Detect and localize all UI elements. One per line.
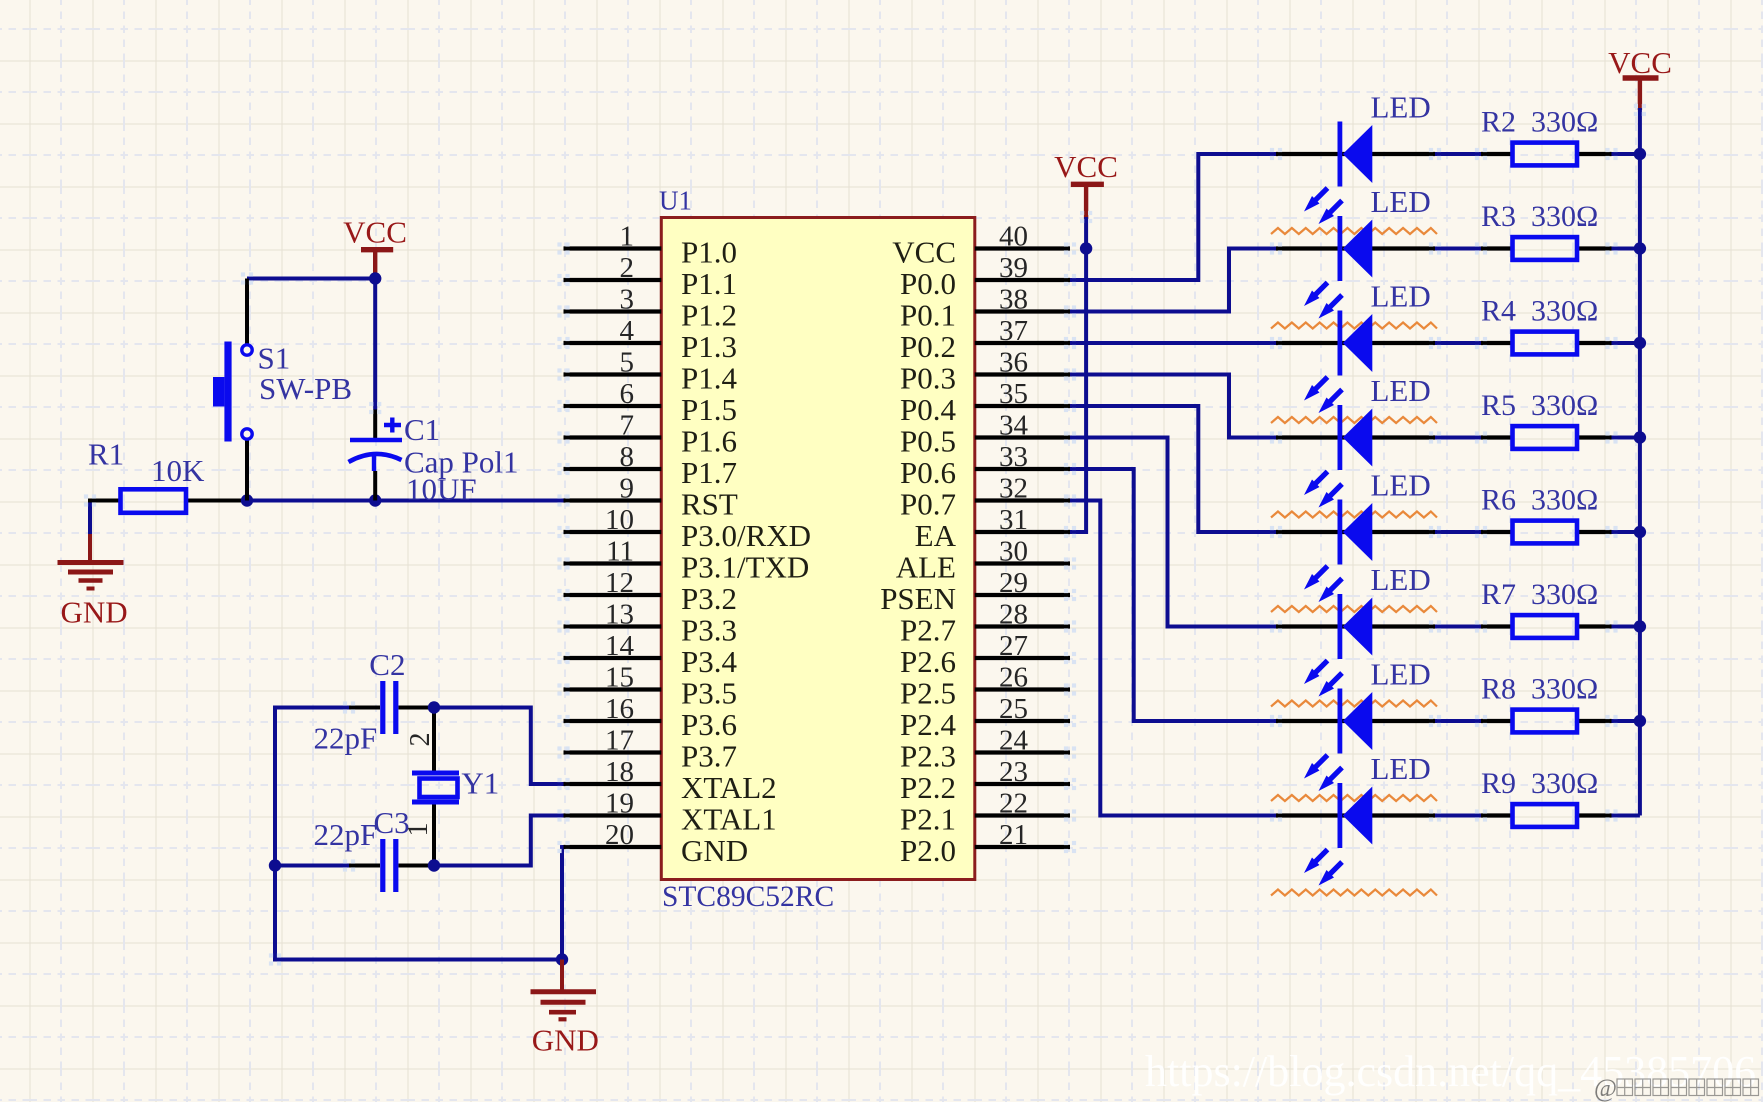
svg-text:4: 4 <box>620 315 635 347</box>
error squiggle under LED D3 <box>1271 417 1437 423</box>
pin endpoint markers <box>84 104 1646 966</box>
wire R3 to VCC rail <box>1612 247 1640 251</box>
resistor R4 330ohm <box>1481 295 1612 355</box>
svg-text:2: 2 <box>405 733 436 747</box>
svg-text:P3.7: P3.7 <box>681 739 737 774</box>
junction rail-GND node <box>556 953 568 965</box>
wire P0.6 net <box>1070 469 1276 721</box>
U1 pin 40 (VCC) <box>892 221 1070 270</box>
svg-text:26: 26 <box>999 662 1028 694</box>
junction C3-Y1 node <box>428 859 440 871</box>
svg-text:P1.2: P1.2 <box>681 298 737 333</box>
wire GND pin20 net <box>562 847 564 960</box>
svg-text:10: 10 <box>605 504 634 536</box>
wire RST net horizontal <box>247 499 564 503</box>
svg-text:P3.3: P3.3 <box>681 613 737 648</box>
svg-text:P2.3: P2.3 <box>900 739 956 774</box>
U1 pin 37 (P0.2) <box>900 315 1070 364</box>
svg-text:VCC: VCC <box>1608 45 1672 80</box>
svg-text:P2.7: P2.7 <box>900 613 956 648</box>
wire LED D2 to R3 <box>1435 247 1482 251</box>
U1 pin 22 (P2.1) <box>900 788 1070 837</box>
wire P0.4 net <box>1070 406 1276 532</box>
svg-text:LED: LED <box>1371 373 1431 408</box>
svg-text:6: 6 <box>620 378 635 410</box>
wire P0.2 net <box>1070 341 1276 345</box>
wire LED D5 to R6 <box>1435 530 1482 534</box>
wire LED D4 to R5 <box>1435 436 1482 440</box>
svg-text:LED: LED <box>1371 562 1431 597</box>
U1 pin 33 (P0.6) <box>900 441 1070 490</box>
U1 pin 38 (P0.1) <box>900 284 1070 333</box>
svg-text:C1: C1 <box>404 412 440 447</box>
svg-text:VCC: VCC <box>1054 149 1118 184</box>
resistor R7 330ohm <box>1481 578 1612 638</box>
svg-text:1: 1 <box>620 221 635 253</box>
svg-text:@: @ <box>1594 1075 1617 1102</box>
wire R6 to VCC rail <box>1612 530 1640 534</box>
wire XTAL2 net <box>434 708 564 785</box>
svg-text:21: 21 <box>999 819 1028 851</box>
junction R6-VCC rail <box>1634 526 1646 538</box>
junction C2-Y1 node <box>428 701 440 713</box>
svg-text:XTAL1: XTAL1 <box>681 802 777 837</box>
LED D8 <box>1276 751 1435 886</box>
junction R5-VCC rail <box>1634 431 1646 443</box>
svg-text:R9 330Ω: R9 330Ω <box>1481 767 1598 800</box>
U1 pin 13 (P3.3) <box>564 599 738 648</box>
svg-text:P0.7: P0.7 <box>900 487 956 522</box>
svg-text:LED: LED <box>1371 468 1431 503</box>
svg-text:8: 8 <box>620 441 635 473</box>
svg-text:7: 7 <box>620 410 635 442</box>
resistor R1 <box>88 437 249 513</box>
svg-text:P2.1: P2.1 <box>900 802 956 837</box>
svg-text:P3.1/TXD: P3.1/TXD <box>681 550 809 585</box>
U1 pin 9 (RST) <box>564 473 738 522</box>
svg-text:R7 330Ω: R7 330Ω <box>1481 578 1598 611</box>
U1 pin 17 (P3.7) <box>564 725 738 774</box>
U1 pin 16 (P3.6) <box>564 693 738 742</box>
svg-text:P0.5: P0.5 <box>900 424 956 459</box>
svg-text:SW-PB: SW-PB <box>259 371 352 406</box>
U1 pin 20 (GND) <box>564 819 749 868</box>
svg-text:P2.4: P2.4 <box>900 707 956 742</box>
svg-text:R3 330Ω: R3 330Ω <box>1481 200 1598 233</box>
U1 pin 18 (XTAL2) <box>564 756 777 805</box>
svg-text:GND: GND <box>532 1023 599 1058</box>
svg-text:XTAL2: XTAL2 <box>681 770 777 805</box>
svg-text:22: 22 <box>999 788 1028 820</box>
op-amp substitute: MCU U1 body <box>659 186 975 914</box>
U1 pin 1 (P1.0) <box>564 221 738 270</box>
svg-text:P1.1: P1.1 <box>681 266 737 301</box>
resistor R9 330ohm <box>1481 767 1612 827</box>
U1 pin 29 (PSEN) <box>880 567 1070 616</box>
svg-text:P3.6: P3.6 <box>681 707 737 742</box>
svg-text:https://blog.csdn.net/qq_45385: https://blog.csdn.net/qq_45385706 <box>1145 1047 1756 1096</box>
svg-text:5: 5 <box>620 347 635 379</box>
wire R5 to VCC rail <box>1612 436 1640 440</box>
svg-text:LED: LED <box>1371 751 1431 786</box>
U1 pin 23 (P2.2) <box>900 756 1070 805</box>
svg-text:15: 15 <box>605 662 634 694</box>
U1 pin 4 (P1.3) <box>564 315 738 364</box>
resistor R2 330ohm <box>1481 106 1612 166</box>
svg-text:39: 39 <box>999 252 1028 284</box>
U1 pin 6 (P1.5) <box>564 378 738 427</box>
U1 pin 24 (P2.3) <box>900 725 1070 774</box>
svg-text:P1.4: P1.4 <box>681 361 737 396</box>
junction R2-VCC rail <box>1634 148 1646 160</box>
wire R4 to VCC rail <box>1612 341 1640 345</box>
wire XTAL1 net <box>434 816 564 866</box>
LED D1 <box>1276 90 1435 225</box>
svg-text:LED: LED <box>1371 90 1431 125</box>
U1 pin 28 (P2.7) <box>900 599 1070 648</box>
svg-text:P1.6: P1.6 <box>681 424 737 459</box>
wire bottom rail to GND <box>273 958 562 962</box>
svg-text:LED: LED <box>1371 279 1431 314</box>
svg-text:P3.0/RXD: P3.0/RXD <box>681 518 811 553</box>
error squiggle under LED D1 <box>1271 228 1437 234</box>
svg-text:P1.3: P1.3 <box>681 329 737 364</box>
wire R8 to VCC rail <box>1612 719 1640 723</box>
U1 pin 30 (ALE) <box>896 536 1070 585</box>
svg-text:C2: C2 <box>369 647 405 682</box>
resistor R6 330ohm <box>1481 484 1612 544</box>
svg-text:25: 25 <box>999 693 1028 725</box>
LED D3 <box>1276 279 1435 414</box>
error squiggle under LED D2 <box>1271 323 1437 329</box>
svg-text:33: 33 <box>999 441 1028 473</box>
svg-text:P0.3: P0.3 <box>900 361 956 396</box>
U1 pin 12 (P3.2) <box>564 567 738 616</box>
svg-text:1: 1 <box>403 823 434 837</box>
crystal Y1 <box>403 706 499 868</box>
U1 pin 34 (P0.5) <box>900 410 1070 459</box>
svg-text:P2.5: P2.5 <box>900 676 956 711</box>
svg-text:VCC: VCC <box>343 215 407 250</box>
wire P0.3 net <box>1070 375 1276 438</box>
svg-text:38: 38 <box>999 284 1028 316</box>
U1 pin 7 (P1.6) <box>564 410 738 459</box>
power port VCC (right) <box>1608 45 1672 110</box>
svg-text:30: 30 <box>999 536 1028 568</box>
svg-text:P0.2: P0.2 <box>900 329 956 364</box>
error squiggle under LED D6 <box>1271 701 1437 707</box>
U1 pin 32 (P0.7) <box>900 473 1070 522</box>
svg-text:STC89C52RC: STC89C52RC <box>662 881 834 913</box>
LED D5 <box>1276 468 1435 603</box>
error squiggle under LED D8 <box>1271 890 1437 896</box>
U1 pin 19 (XTAL1) <box>564 788 777 837</box>
U1 pin 39 (P0.0) <box>900 252 1070 301</box>
svg-text:U1: U1 <box>659 186 692 216</box>
svg-text:P1.0: P1.0 <box>681 235 737 270</box>
U1 pin 26 (P2.5) <box>900 662 1070 711</box>
junction R3-VCC rail <box>1634 242 1646 254</box>
U1 pin 11 (P3.1/TXD) <box>564 536 810 585</box>
svg-text:20: 20 <box>605 819 634 851</box>
switch S1 SW-PB <box>213 279 352 501</box>
U1 pin 25 (P2.4) <box>900 693 1070 742</box>
svg-text:EA: EA <box>915 518 957 553</box>
U1 pin 36 (P0.3) <box>900 347 1070 396</box>
LED D6 <box>1276 562 1435 697</box>
svg-text:29: 29 <box>999 567 1028 599</box>
U1 pin 31 (EA) <box>915 504 1070 553</box>
U1 pin 5 (P1.4) <box>564 347 738 396</box>
wire left rail vertical <box>273 706 277 960</box>
ground GND (bottom) <box>531 960 599 1058</box>
svg-text:17: 17 <box>605 725 634 757</box>
svg-text:LED: LED <box>1371 184 1431 219</box>
wire R9 to VCC rail <box>1612 814 1640 818</box>
junction VCC-S1-C1 node <box>369 272 381 284</box>
svg-text:P3.4: P3.4 <box>681 644 737 679</box>
svg-text:24: 24 <box>999 725 1029 757</box>
capacitor C2 <box>314 647 435 756</box>
svg-text:R1: R1 <box>88 437 124 472</box>
wire S1 top to VCC node <box>247 277 375 281</box>
wire R1 left to GND <box>88 499 92 537</box>
svg-text:16: 16 <box>605 693 634 725</box>
svg-text:32: 32 <box>999 473 1028 505</box>
U1 pin 21 (P2.0) <box>900 819 1070 868</box>
resistor R3 330ohm <box>1481 200 1612 260</box>
svg-text:34: 34 <box>999 410 1029 442</box>
U1 pin 27 (P2.6) <box>900 630 1070 679</box>
wire LED D6 to R7 <box>1435 625 1482 629</box>
U1 pin 8 (P1.7) <box>564 441 738 490</box>
svg-text:P0.0: P0.0 <box>900 266 956 301</box>
svg-text:35: 35 <box>999 378 1028 410</box>
watermark community badge <box>1594 1075 1759 1102</box>
svg-text:R5 330Ω: R5 330Ω <box>1481 389 1598 422</box>
U1 pin 3 (P1.2) <box>564 284 738 333</box>
error squiggle under LED D7 <box>1271 795 1437 801</box>
resistor R5 330ohm <box>1481 389 1612 449</box>
svg-text:2: 2 <box>620 252 635 284</box>
wire P0.0 net <box>1070 154 1276 280</box>
junction VCC-pin40 <box>1080 242 1092 254</box>
LED D7 <box>1276 657 1435 792</box>
svg-text:P3.5: P3.5 <box>681 676 737 711</box>
junction R8-VCC rail <box>1634 715 1646 727</box>
svg-text:P1.5: P1.5 <box>681 392 737 427</box>
svg-text:P2.0: P2.0 <box>900 833 956 868</box>
svg-text:11: 11 <box>606 536 634 568</box>
junction RST-C1 node <box>369 494 381 506</box>
wire LED D3 to R4 <box>1435 341 1482 345</box>
wire P0.5 net <box>1070 438 1276 627</box>
capacitor C1 polarized <box>349 279 519 507</box>
wire VCC rail vertical <box>1638 108 1642 816</box>
U1 pin 35 (P0.4) <box>900 378 1070 427</box>
junction RST-S1 node <box>241 494 253 506</box>
U1 pin 10 (P3.0/RXD) <box>564 504 812 553</box>
svg-text:PSEN: PSEN <box>880 581 956 616</box>
svg-text:28: 28 <box>999 599 1028 631</box>
svg-text:10K: 10K <box>151 453 205 488</box>
ground GND (left) <box>58 534 128 630</box>
wire VCC-pin40-EA net <box>1070 217 1086 532</box>
svg-text:18: 18 <box>605 756 634 788</box>
capacitor C3 <box>275 805 434 892</box>
svg-text:Y1: Y1 <box>461 766 499 801</box>
svg-text:R8 330Ω: R8 330Ω <box>1481 673 1598 706</box>
svg-text:ALE: ALE <box>896 550 956 585</box>
junction rail-C3 node <box>269 859 281 871</box>
svg-text:36: 36 <box>999 347 1028 379</box>
LED D4 <box>1276 373 1435 508</box>
svg-text:23: 23 <box>999 756 1028 788</box>
svg-text:P0.1: P0.1 <box>900 298 956 333</box>
svg-text:40: 40 <box>999 221 1028 253</box>
svg-text:22pF: 22pF <box>314 817 378 852</box>
svg-text:P1.7: P1.7 <box>681 455 737 490</box>
svg-text:R4 330Ω: R4 330Ω <box>1481 295 1598 328</box>
power port VCC (left) <box>343 215 407 279</box>
U1 pin 14 (P3.4) <box>564 630 738 679</box>
svg-text:GND: GND <box>681 833 748 868</box>
error squiggle under LED D4 <box>1271 512 1437 518</box>
U1 pin 2 (P1.1) <box>564 252 738 301</box>
svg-text:27: 27 <box>999 630 1028 662</box>
wire C2 left segment <box>275 706 349 710</box>
svg-text:13: 13 <box>605 599 634 631</box>
svg-text:37: 37 <box>999 315 1028 347</box>
svg-text:GND: GND <box>61 595 128 630</box>
wire R7 to VCC rail <box>1612 625 1640 629</box>
svg-text:P0.4: P0.4 <box>900 392 956 427</box>
wire LED D1 to R2 <box>1435 152 1482 156</box>
svg-text:R2 330Ω: R2 330Ω <box>1481 106 1598 139</box>
svg-text:R6 330Ω: R6 330Ω <box>1481 484 1598 517</box>
power port VCC (pin 40) <box>1054 149 1118 219</box>
svg-text:19: 19 <box>605 788 634 820</box>
svg-text:P3.2: P3.2 <box>681 581 737 616</box>
junction R4-VCC rail <box>1634 337 1646 349</box>
wire P0.1 net <box>1070 249 1276 312</box>
wire P0.7 net <box>1070 501 1276 816</box>
wire R2 to VCC rail <box>1612 152 1640 156</box>
wire LED D7 to R8 <box>1435 719 1482 723</box>
svg-text:10UF: 10UF <box>406 472 477 507</box>
svg-text:12: 12 <box>605 567 634 599</box>
junction R7-VCC rail <box>1634 620 1646 632</box>
svg-text:31: 31 <box>999 504 1028 536</box>
svg-text:P2.2: P2.2 <box>900 770 956 805</box>
svg-text:9: 9 <box>620 473 635 505</box>
U1 pin 15 (P3.5) <box>564 662 738 711</box>
svg-text:P0.6: P0.6 <box>900 455 956 490</box>
svg-text:3: 3 <box>620 284 635 316</box>
svg-text:14: 14 <box>605 630 635 662</box>
LED D2 <box>1276 184 1435 319</box>
svg-text:VCC: VCC <box>892 235 956 270</box>
svg-text:LED: LED <box>1371 657 1431 692</box>
wire LED D8 to R9 <box>1435 814 1482 818</box>
resistor R8 330ohm <box>1481 673 1612 733</box>
error squiggle under LED D5 <box>1271 606 1437 612</box>
svg-text:P2.6: P2.6 <box>900 644 956 679</box>
svg-text:22pF: 22pF <box>314 721 378 756</box>
watermark URL <box>1145 1047 1756 1096</box>
svg-text:RST: RST <box>681 487 738 522</box>
